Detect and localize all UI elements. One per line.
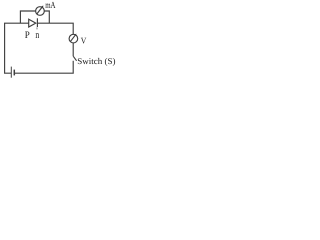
- svg-text:mA: mA: [45, 0, 56, 10]
- svg-text:Switch (S): Switch (S): [77, 56, 115, 66]
- svg-text:n: n: [35, 30, 39, 41]
- svg-text:V: V: [81, 35, 87, 45]
- svg-text:P: P: [25, 30, 30, 41]
